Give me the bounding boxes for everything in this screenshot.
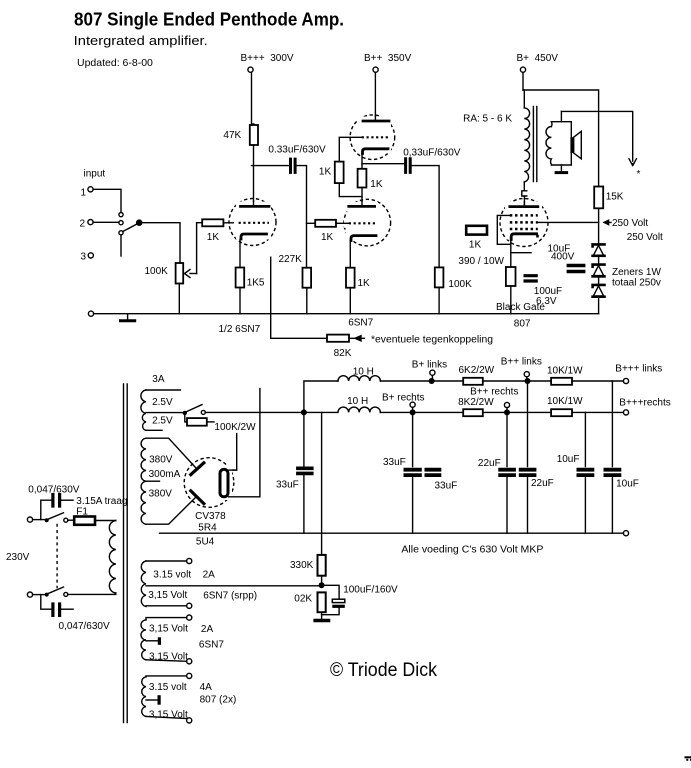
wire cap top right lead xyxy=(61,499,73,501)
capacitor 0,047/630V bottom xyxy=(53,604,60,615)
svg-text:B++ rechts: B++ rechts xyxy=(470,387,518,398)
wire 5V bottom stub xyxy=(146,429,162,431)
wire input1 to selector contact A xyxy=(93,189,121,212)
switch S2 pivot xyxy=(183,411,187,415)
junction selector common xyxy=(137,220,142,225)
wire 100uF bottom to 02K bottom xyxy=(322,608,340,615)
svg-text:6SN7 (srpp): 6SN7 (srpp) xyxy=(203,591,257,602)
svg-text:3A: 3A xyxy=(152,374,165,385)
ground speaker xyxy=(556,171,567,174)
807 grid g1 xyxy=(510,214,538,217)
svg-text:22uF: 22uF xyxy=(531,478,554,489)
svg-text:100uF/160V: 100uF/160V xyxy=(343,584,398,595)
wire filament top out xyxy=(229,469,237,471)
svg-text:6K2/2W: 6K2/2W xyxy=(459,365,495,376)
svg-text:33uF: 33uF xyxy=(276,479,299,490)
svg-text:250 Volt: 250 Volt xyxy=(627,232,663,243)
svg-text:Zeners 1W: Zeners 1W xyxy=(612,267,661,278)
svg-text:6SN7: 6SN7 xyxy=(348,318,373,329)
svg-text:1K: 1K xyxy=(207,232,220,243)
wire 1K to V3 grid xyxy=(336,222,349,224)
winding B center tap xyxy=(146,640,158,642)
svg-text:© Triode Dick: © Triode Dick xyxy=(330,660,437,681)
mains terminal N xyxy=(27,592,32,597)
wire node up to links rail xyxy=(304,381,338,412)
svg-text:100K/2W: 100K/2W xyxy=(214,422,256,433)
V3 cathode xyxy=(351,236,376,241)
rectifier filament xyxy=(220,469,228,496)
V2 plate xyxy=(363,120,389,123)
svg-text:0,047/630V: 0,047/630V xyxy=(59,621,110,632)
switch S2 contact xyxy=(201,410,205,414)
wire B+ down to output transformer primary xyxy=(523,90,525,108)
V1 grid xyxy=(239,222,269,224)
wire SRPP output tap xyxy=(362,163,404,165)
wire cap top left lead xyxy=(41,500,52,519)
wire B++ down to V2 plate xyxy=(374,72,376,119)
svg-text:33uF: 33uF xyxy=(435,480,458,491)
resistor 1K5 xyxy=(236,268,245,288)
resistor 390/10W xyxy=(506,267,516,286)
resistor 1K V2 cathode xyxy=(358,169,367,188)
svg-text:3,15 Volt: 3,15 Volt xyxy=(149,710,188,721)
svg-text:2A: 2A xyxy=(201,624,214,635)
svg-text:3.15 volt: 3.15 volt xyxy=(149,682,187,693)
wire to rectifier filament top xyxy=(229,434,237,471)
resistor 82K feedback xyxy=(327,335,349,342)
resistor 1K 807 grid stopper xyxy=(466,226,487,235)
speaker driver xyxy=(570,137,573,153)
transformer T2 primary xyxy=(109,521,115,594)
wire cap bottom left lead xyxy=(41,595,52,610)
svg-text:Updated: 6-8-00: Updated: 6-8-00 xyxy=(77,57,153,69)
mains terminal L xyxy=(27,517,32,522)
winding C 3.15V 807 xyxy=(187,673,192,678)
svg-text:390 / 10W: 390 / 10W xyxy=(458,256,504,267)
wire 02K to ground xyxy=(321,612,323,619)
rectifier plate 1 xyxy=(191,463,204,475)
wire 1K grid down to SRPP midpoint xyxy=(339,183,362,197)
output transformer core xyxy=(533,107,536,182)
svg-text:330K: 330K xyxy=(290,560,314,571)
wire B+ branch to 15K rail xyxy=(523,90,599,187)
wire 100K/2W right lead xyxy=(207,421,214,423)
pentode 807 envelope xyxy=(500,199,548,247)
wire input2 to selector contact B xyxy=(93,221,118,223)
winding C center tap xyxy=(146,699,158,701)
wire cathode branch stub xyxy=(511,252,531,254)
svg-text:3,15 Volt: 3,15 Volt xyxy=(148,590,187,601)
wire below contact C xyxy=(120,235,122,256)
svg-text:82K: 82K xyxy=(334,348,352,359)
transformer T2 core xyxy=(124,384,128,723)
807 grid g3 xyxy=(510,228,538,231)
junction B++ links xyxy=(525,378,531,384)
svg-text:Black Gate: Black Gate xyxy=(496,302,545,313)
wire choke rechts to 8K2 xyxy=(380,411,463,413)
svg-text:Intergrated amplifier.: Intergrated amplifier. xyxy=(74,33,208,48)
switch S1b contact xyxy=(64,592,68,596)
wire D3 to ground bus xyxy=(598,298,600,314)
svg-text:CV378: CV378 xyxy=(195,511,226,522)
resistor 1K V2 grid xyxy=(335,162,344,184)
selector contact B xyxy=(119,221,123,225)
wire S2 contact to rail xyxy=(205,411,304,413)
wire pivot down to 100K/2W xyxy=(185,413,187,422)
wire 330K to node xyxy=(321,576,323,583)
svg-text:380V: 380V xyxy=(149,489,173,500)
807 plate xyxy=(510,205,538,208)
wire V1 cathode down xyxy=(239,240,241,268)
svg-text:8K2/2W: 8K2/2W xyxy=(458,397,494,408)
zener D2 xyxy=(593,265,605,267)
output transformer T1 secondary xyxy=(546,122,571,165)
svg-text:10 H: 10 H xyxy=(347,396,368,407)
svg-text:2.5V: 2.5V xyxy=(152,397,173,408)
wire choke links to B+ links xyxy=(380,380,463,382)
V1 plate xyxy=(241,205,270,208)
V3 plate xyxy=(349,205,375,208)
svg-text:B+ links: B+ links xyxy=(412,360,447,371)
svg-text:B++ links: B++ links xyxy=(501,357,542,368)
svg-text:1: 1 xyxy=(81,188,87,199)
winding B 3.15V 6SN7 xyxy=(187,615,192,620)
wire terminal L to switch xyxy=(33,519,45,521)
svg-text:227K: 227K xyxy=(279,254,303,265)
wire filament bottom out xyxy=(229,389,260,497)
zener D3 xyxy=(593,285,605,287)
junction B+ links xyxy=(429,378,435,384)
svg-text:*eventuele tegenkoppeling: *eventuele tegenkoppeling xyxy=(371,335,493,346)
svg-text:1K: 1K xyxy=(469,239,482,250)
resistor 1K V3 grid xyxy=(315,220,336,227)
wire 390 to ground bus xyxy=(510,286,512,314)
wire plate node to V1 plate xyxy=(253,166,255,206)
wire wiper up to grid resistor xyxy=(197,223,203,274)
wire 1K to ground bus xyxy=(349,288,351,314)
triode V1 1/2 6SN7 envelope xyxy=(229,199,276,246)
svg-text:807 Single Ended Penthode Amp.: 807 Single Ended Penthode Amp. xyxy=(74,10,344,30)
wire selector to pot xyxy=(139,223,180,263)
junction heater elevation node xyxy=(319,582,325,588)
svg-text:02K: 02K xyxy=(294,594,312,605)
svg-text:5R4: 5R4 xyxy=(198,523,217,534)
wire 227K to ground bus xyxy=(306,288,308,314)
wire raw DC to 330K xyxy=(321,412,323,555)
feedback tap arrow xyxy=(629,159,636,166)
svg-text:B+++rechts: B+++rechts xyxy=(619,398,670,409)
svg-text:2A: 2A xyxy=(203,570,216,581)
wire 227K node to 1K grid xyxy=(307,222,316,224)
V3 grid xyxy=(349,222,376,224)
wire g2 to 250V rail xyxy=(537,221,599,223)
resistor 47K xyxy=(250,125,258,145)
svg-text:3.15A traag: 3.15A traag xyxy=(76,496,127,507)
wire fuse to primary xyxy=(95,520,116,522)
triode V2 upper 6SN7 SRPP envelope xyxy=(350,115,395,160)
svg-text:3,15 Volt: 3,15 Volt xyxy=(149,623,188,634)
wire B+++ down to 47K xyxy=(252,72,254,125)
svg-text:100K: 100K xyxy=(448,279,472,290)
zener D1 xyxy=(593,244,605,246)
resistor 100K 807 grid leak xyxy=(435,267,444,287)
switch S1a contact xyxy=(64,518,68,522)
node 250 Volt arrow xyxy=(604,220,611,224)
svg-text:250 Volt: 250 Volt xyxy=(612,218,648,229)
wire contact to fuse xyxy=(68,519,74,521)
wire 10K links to B+++ links xyxy=(572,380,623,382)
wire pivot to terminal N xyxy=(33,594,45,596)
node B++ rechts xyxy=(504,402,509,407)
807 grid g2 screen xyxy=(510,221,538,224)
ground symbol amp xyxy=(127,314,129,320)
stray mark bottom right xyxy=(686,756,691,758)
svg-text:B+++ 300V: B+++ 300V xyxy=(241,53,294,64)
svg-text:10uF: 10uF xyxy=(557,454,580,465)
wire node to 100uF cap xyxy=(322,585,340,599)
wire 10K rechts to B+++ rechts xyxy=(572,411,623,413)
svg-text:Alle voeding C's 630 Volt MKP: Alle voeding C's 630 Volt MKP xyxy=(401,545,543,556)
svg-text:totaal 250v: totaal 250v xyxy=(612,278,661,289)
svg-text:input: input xyxy=(84,169,106,180)
wire 807 cathode down xyxy=(510,240,512,268)
svg-text:6SN7: 6SN7 xyxy=(199,639,224,650)
svg-text:2: 2 xyxy=(80,218,86,229)
svg-text:47K: 47K xyxy=(223,130,241,141)
V1 cathode xyxy=(241,234,267,239)
wire plate cap to plate xyxy=(523,196,525,205)
wire node to srpp heater center tap xyxy=(146,585,322,587)
resistor 15K xyxy=(594,187,603,209)
svg-text:*: * xyxy=(637,169,641,180)
807 plate cap xyxy=(522,182,527,196)
svg-text:4A: 4A xyxy=(200,682,213,693)
resistor 1K V3 cathode xyxy=(346,268,355,288)
wire feedback from cathode area down xyxy=(271,257,327,338)
svg-text:33uF: 33uF xyxy=(383,457,406,468)
capacitor 100uF Black Gate xyxy=(525,276,536,281)
output transformer T1 primary xyxy=(524,108,529,182)
svg-text:RA: 5 - 6 K: RA: 5 - 6 K xyxy=(463,114,512,125)
svg-text:1K: 1K xyxy=(319,166,332,177)
svg-text:230V: 230V xyxy=(6,552,30,563)
wire 100K to ground bus xyxy=(438,287,440,313)
junction B++ rechts xyxy=(504,409,510,415)
svg-text:807 (2x): 807 (2x) xyxy=(200,695,237,706)
wire 5V top stub xyxy=(146,389,180,391)
switch S1a pivot xyxy=(45,518,49,522)
switch blade input selector xyxy=(123,224,138,232)
switch S1b blade xyxy=(48,587,64,594)
wire V2 grid left and down to 1K xyxy=(339,137,361,161)
junction B+ rechts xyxy=(410,409,416,415)
svg-text:0.33uF/630V: 0.33uF/630V xyxy=(268,144,326,155)
switch gang dashed link xyxy=(56,524,58,589)
V2 cathode xyxy=(363,149,389,154)
winding A 3.15V 6SN7 srpp xyxy=(187,558,192,563)
ground bus amp xyxy=(88,311,93,316)
svg-text:5U4: 5U4 xyxy=(196,537,215,548)
svg-text:380V: 380V xyxy=(149,455,173,466)
wire 5V center tap to switch xyxy=(146,412,183,414)
wire 1K5 to ground bus xyxy=(239,288,241,314)
wire 15K down to zeners xyxy=(598,208,600,243)
svg-text:3: 3 xyxy=(81,252,87,263)
svg-text:B+ 450V: B+ 450V xyxy=(517,53,559,64)
svg-text:3,15 Volt: 3,15 Volt xyxy=(149,652,188,663)
selector contact C xyxy=(119,231,123,235)
wire pot bottom to ground bus xyxy=(178,284,180,314)
wire HT top stub to plate xyxy=(146,438,196,467)
svg-text:B++ 350V: B++ 350V xyxy=(364,53,412,64)
svg-text:1/2 6SN7: 1/2 6SN7 xyxy=(219,324,261,335)
807 cathode xyxy=(511,234,536,240)
pot wiper arrow xyxy=(185,270,191,278)
svg-text:1K: 1K xyxy=(321,232,334,243)
wire primary bottom to switch xyxy=(68,593,116,594)
svg-text:400V: 400V xyxy=(551,252,575,263)
wire C2 out to 100K xyxy=(412,166,439,268)
resistor 100K/2W xyxy=(187,418,207,426)
resistor 1K grid stopper V1 xyxy=(202,219,223,226)
wire plate node horizontal to C1 and stage2 xyxy=(252,165,289,167)
svg-text:22uF: 22uF xyxy=(478,458,501,469)
wire 6K2 to B++ links xyxy=(483,380,551,382)
wire B+ down xyxy=(522,72,524,90)
rectifier plate 2 xyxy=(191,491,204,504)
wire 1K cathode down to V3 plate xyxy=(361,188,363,205)
svg-text:2.5V: 2.5V xyxy=(152,416,173,427)
switch S1b pivot xyxy=(45,593,49,597)
wire speaker line to feedback tap xyxy=(561,111,632,161)
wire g1 left and down xyxy=(497,215,511,244)
speaker horn xyxy=(574,131,582,159)
svg-text:100K: 100K xyxy=(145,266,169,277)
wire 8K2 to B++ rechts xyxy=(483,411,551,413)
switch S1a blade xyxy=(48,513,64,520)
selector contact A xyxy=(119,213,123,217)
svg-text:0,33uF/630V: 0,33uF/630V xyxy=(403,148,461,159)
wire V3 cathode down xyxy=(349,241,351,268)
ground symbol divider xyxy=(315,619,329,622)
svg-text:10K/1W: 10K/1W xyxy=(547,396,583,407)
wire D1-D2 xyxy=(598,257,600,263)
wire C1 out right then down to 227K xyxy=(297,166,307,268)
wire cap bottom right lead xyxy=(61,608,73,610)
junction raw DC node xyxy=(301,409,307,415)
807 cathode right mark xyxy=(536,235,539,238)
wire D2-D3 xyxy=(598,278,600,284)
wire HT center tap stub xyxy=(146,480,160,482)
V2 grid xyxy=(362,136,389,138)
wire secondary top xyxy=(560,111,562,121)
svg-text:1K5: 1K5 xyxy=(247,278,265,289)
svg-text:15K: 15K xyxy=(606,192,624,203)
wire 82K to arrow xyxy=(349,336,364,341)
wire 47K to plate node xyxy=(253,145,255,166)
wire secondary bottom to ground xyxy=(560,165,562,172)
svg-text:10uF: 10uF xyxy=(616,479,639,490)
switch S2 blade xyxy=(186,405,202,412)
svg-text:10K/1W: 10K/1W xyxy=(547,366,583,377)
svg-text:B+++ links: B+++ links xyxy=(615,364,662,375)
rectifier U1 envelope xyxy=(184,458,234,508)
svg-text:3.15 volt: 3.15 volt xyxy=(153,570,191,581)
wire HT bottom stub to plate xyxy=(146,498,196,525)
wire 1K to grid dots xyxy=(223,222,238,224)
svg-text:1K: 1K xyxy=(358,278,371,289)
ground rail PSU xyxy=(160,532,624,534)
svg-text:807: 807 xyxy=(514,319,531,330)
triode V3 lower 6SN7 SRPP envelope xyxy=(344,199,391,246)
svg-text:B+ rechts: B+ rechts xyxy=(382,393,425,404)
wire V2 cathode down to 1K xyxy=(361,154,363,169)
svg-text:1K: 1K xyxy=(370,179,383,190)
svg-text:300mA: 300mA xyxy=(149,469,181,480)
node PSU ground terminal xyxy=(623,531,628,536)
